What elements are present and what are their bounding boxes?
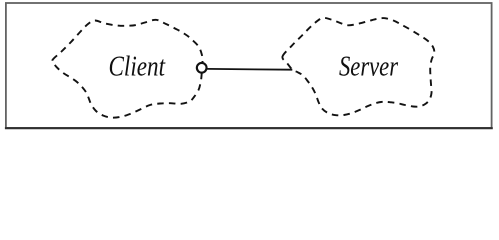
border frame xyxy=(5,3,493,128)
svg-text:Client: Client xyxy=(109,52,166,83)
link line xyxy=(207,68,292,71)
node circle xyxy=(197,63,207,73)
server cloud xyxy=(282,18,434,115)
client cloud xyxy=(52,20,202,118)
svg-text:Server: Server xyxy=(339,52,398,83)
